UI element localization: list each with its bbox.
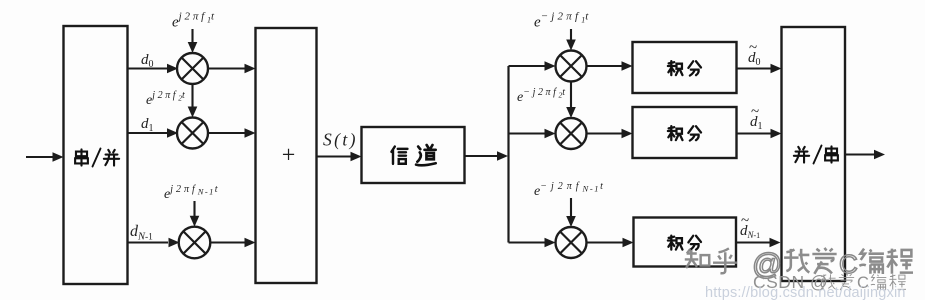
wire integrator1 to P/S [737, 67, 772, 69]
label 积分 integrator 2 [668, 126, 701, 140]
arrowhead dN-1 into M3 [169, 238, 180, 248]
wire d1 row from S/P to multiplier M2 [128, 132, 168, 134]
arrowhead bus into D2 [545, 129, 556, 139]
block integrator 1 积分 [633, 42, 737, 93]
multiplier M1 [177, 53, 208, 84]
arrowhead bus into D1 [545, 61, 556, 71]
arrowhead D1 into integrator1 [622, 61, 633, 71]
wire oscillator 1 down into M1 [191, 29, 193, 44]
wire oscillator 3 down into M3 [193, 201, 195, 218]
label 并/串 inside P/S block [794, 146, 838, 164]
multiplier M2 [177, 118, 208, 149]
watermark 知乎 @我爱C编程 [685, 248, 913, 274]
wire dN-1 row from S/P to multiplier M3 [128, 241, 169, 243]
block 串/并 (serial-to-parallel) [64, 26, 128, 284]
block integrator 2 积分 [633, 107, 737, 158]
block integrator 3 积分 [634, 218, 737, 267]
arrowhead into D2 top [566, 107, 576, 118]
arrowhead d0 into M1 [167, 64, 178, 74]
wire M2 to adder [208, 132, 245, 134]
arrowhead D3 into integrator3 [623, 238, 634, 248]
arrowhead M1 to adder [245, 64, 256, 74]
arrowhead M2 to adder [245, 128, 256, 138]
arrowhead integrator3 to P/S [770, 238, 781, 248]
arrowhead integrator1 to P/S [771, 64, 782, 74]
arrowhead input [53, 152, 64, 162]
svg-text:~: ~ [751, 104, 759, 120]
arrowhead osc1 into M1 top [188, 42, 198, 53]
arrowhead bus into D3 [545, 238, 556, 248]
block 信道 (channel) [362, 127, 465, 183]
wire oscillator down into D3 [570, 198, 572, 218]
svg-text:~: ~ [749, 40, 757, 56]
svg-text:ej2πfN-1t: ej2πfN-1t [164, 184, 218, 202]
svg-text:ej2πf1t: ej2πf1t [172, 11, 215, 31]
label 积分 integrator 3 [668, 236, 701, 250]
wire output arrow [845, 153, 874, 155]
multiplier M3 [179, 227, 211, 259]
wire S(t) from adder to channel [317, 155, 352, 157]
wire M1 to adder [208, 67, 245, 69]
svg-text:d1: d1 [141, 116, 154, 134]
wire bus to demod multiplier D1 [509, 65, 546, 67]
svg-text:e−j2πf2t: e−j2πf2t [517, 87, 565, 105]
wire bus to demod multiplier D3 [509, 241, 546, 243]
svg-text:S(t): S(t) [323, 130, 358, 150]
wire integrator2 to P/S [737, 132, 772, 134]
wire integrator3 to P/S [736, 241, 770, 243]
arrowhead osc into D1 top [566, 40, 576, 51]
wire input arrow [26, 156, 53, 158]
label 积分 integrator 1 [668, 61, 701, 75]
wire from D1 bottom down into D2 [570, 82, 572, 110]
wire receiver vertical bus [507, 66, 509, 243]
arrowhead integrator2 to P/S [771, 129, 782, 139]
wire from M1 bottom down into M2 [191, 84, 193, 109]
arrowhead channel to bus [497, 151, 508, 161]
arrowhead output [874, 150, 885, 160]
block 并/串 (parallel-to-serial) [782, 27, 846, 281]
svg-text:d0: d0 [141, 52, 154, 70]
multiplier D2 [556, 118, 587, 149]
arrowhead S(t) into channel [351, 152, 362, 162]
wire D3 to integrator 3 [587, 241, 624, 243]
wire d0 row from S/P to multiplier M1 [128, 67, 168, 69]
arrowhead d1 into M2 [167, 128, 178, 138]
svg-text:https://blog.csdn.net/daijingx: https://blog.csdn.net/daijingxin [705, 285, 906, 300]
block adder + [256, 28, 317, 283]
wire oscillator down into D1 [570, 29, 572, 42]
label 串/并 inside S/P block [75, 149, 119, 167]
svg-text:e−j2πfN-1t: e−j2πfN-1t [534, 181, 603, 199]
svg-text:e−j2πf1t: e−j2πf1t [534, 11, 589, 31]
wire bus to demod multiplier D2 [509, 132, 546, 134]
wire D1 to integrator 1 [587, 65, 623, 67]
wire M3 to adder [210, 241, 245, 243]
wire channel to receiver split node [465, 155, 498, 157]
arrowhead M3 to adder [245, 238, 256, 248]
svg-text:~: ~ [741, 213, 749, 229]
svg-text:dN-1: dN-1 [130, 223, 153, 243]
wire D2 to integrator 2 [587, 132, 623, 134]
multiplier D3 [556, 227, 587, 258]
svg-text:+: + [282, 143, 296, 169]
arrowhead D2 into integrator2 [622, 129, 633, 139]
svg-text:ej2πf2t: ej2πf2t [146, 90, 185, 108]
multiplier D1 [556, 51, 587, 82]
arrowhead into M2 top [188, 107, 198, 118]
label 信道 inside channel block [391, 145, 435, 165]
arrowhead osc3 into M3 top [190, 216, 200, 227]
arrowhead osc into D3 top [566, 216, 576, 227]
